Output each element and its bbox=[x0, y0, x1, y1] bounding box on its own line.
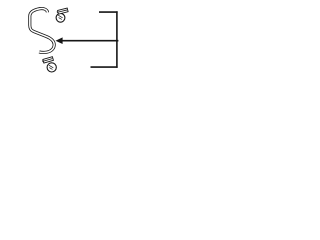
clamp C1 (top) ring bbox=[56, 13, 65, 22]
leader line (horizontal) bbox=[61, 40, 119, 42]
clamp C1 ring slot detail bbox=[58, 15, 62, 19]
hose (S-shaped tube, outer black walls) bbox=[30, 9, 54, 53]
clamp C2 ring slot detail bbox=[49, 65, 53, 69]
bracket vertical line bbox=[116, 11, 118, 68]
clamp C2 screw housing bbox=[42, 57, 54, 64]
clamp C1 screw housing bbox=[57, 8, 68, 14]
clamp C2 (bottom) ring bbox=[47, 63, 56, 72]
arrowhead pointing left at hose bbox=[56, 37, 63, 44]
bracket bottom horizontal line bbox=[91, 66, 118, 68]
hose (white bore) bbox=[30, 9, 54, 53]
bracket top horizontal line bbox=[99, 11, 118, 13]
